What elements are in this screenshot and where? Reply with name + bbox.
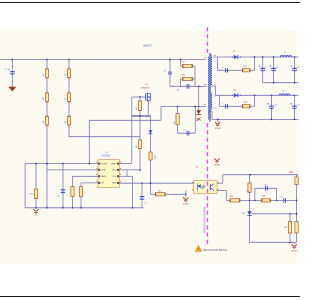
svg-text:UC3842: UC3842: [102, 156, 111, 158]
resistor R8: [183, 77, 193, 80]
svg-text:L2: L2: [282, 91, 285, 93]
svg-text:R13: R13: [158, 190, 161, 192]
svg-text:PRIMARY-SECONDARY: PRIMARY-SECONDARY: [203, 206, 206, 233]
inductor L1: [280, 56, 291, 57]
svg-text:R9: R9: [174, 121, 176, 124]
fb bottom rail: [250, 241, 297, 243]
source column x=150.5 w/ zener + sense resistor: [147, 100, 149, 116]
IC left pin wires: [25, 163, 98, 165]
TL431 anode down: [249, 216, 251, 243]
svg-text:C11: C11: [297, 105, 300, 107]
svg-text:R8: R8: [182, 74, 186, 76]
resistor R19: [230, 199, 240, 202]
resistor R16 x=81: [80, 183, 82, 208]
resistor chain R1a..R1c at x=47: [46, 60, 48, 208]
svg-text:C13: C13: [264, 185, 267, 187]
svg-text:Q1: Q1: [145, 84, 148, 86]
svg-text:C10: C10: [274, 105, 277, 107]
resistor R18: [242, 105, 250, 108]
divider column x=296.5: [296, 175, 298, 243]
ground (input, earth): [8, 87, 16, 91]
ground SGND (transformer): [217, 119, 219, 122]
cap C10: [271, 95, 273, 119]
svg-text:R17: R17: [244, 66, 247, 68]
svg-text:ISOLATION Barrier: ISOLATION Barrier: [203, 248, 228, 252]
svg-text:C7: C7: [265, 67, 267, 69]
svg-text:R4: R4: [65, 73, 67, 76]
inductor L2: [279, 94, 290, 95]
diode D5: [234, 55, 238, 59]
svg-text:R18: R18: [244, 102, 247, 104]
resistor R20: [262, 199, 271, 202]
wire: [11, 60, 13, 87]
svg-text:R10: R10: [136, 105, 138, 110]
svg-text:R6: R6: [65, 120, 67, 123]
comp cap loop C13: [254, 188, 256, 200]
svg-text:+5V: +5V: [289, 171, 294, 174]
svg-text:R22: R22: [284, 227, 287, 229]
stage1 bottom rail: [263, 82, 299, 84]
svg-text:R7: R7: [182, 61, 186, 63]
dark junction bar y=116: [132, 115, 151, 117]
svg-text:R20: R20: [262, 196, 265, 198]
IC right pin wires: [119, 163, 132, 165]
cap C6 x=142: [141, 183, 143, 208]
svg-text:U1: U1: [106, 152, 110, 154]
warning triangle: [195, 246, 202, 252]
+5V feedback rail: [223, 174, 298, 176]
transformer pin ticks: [204, 57, 205, 59]
svg-text:C6: C6: [144, 202, 146, 204]
svg-text:R5: R5: [65, 97, 67, 100]
VREF riser x=131.8: [131, 97, 133, 164]
top border line: [0, 2, 300, 3]
svg-text:VFB: VFB: [101, 170, 106, 172]
bottom border line: [0, 296, 300, 297]
svg-text:VREF: VREF: [111, 163, 117, 165]
svg-text:SGND: SGND: [214, 165, 221, 167]
stage2 output wire +5V: [216, 94, 299, 96]
wire: HV bus down-left jog: [89, 119, 161, 121]
cap C8: [273, 57, 275, 83]
resistor R15 x=72.5: [72, 176, 74, 208]
svg-text:D6: D6: [233, 90, 236, 92]
svg-text:PGND: PGND: [183, 204, 190, 206]
wire: snubber bottom: [170, 85, 206, 87]
ground SGND (fb): [293, 242, 295, 244]
svg-text:R14: R14: [30, 194, 33, 196]
svg-text:R3: R3: [43, 120, 45, 123]
snubber cap C2 leg: [169, 59, 171, 61]
resistor R13: [155, 193, 165, 196]
RC from drain: resistor R9 + cap C4: [177, 107, 179, 134]
divider resistor R22: [289, 214, 291, 243]
wire: drain bus y=106.5: [161, 106, 206, 108]
cap C9: [294, 57, 296, 83]
main fb wire y=200.4: [226, 199, 296, 201]
resistor R17: [242, 69, 250, 72]
core: [208, 53, 210, 122]
wire: snubber to drain: [198, 86, 200, 106]
capacitor C3 on snubber bottom: [186, 84, 188, 89]
stage2 bottom rail / secondary gnd: [212, 118, 298, 120]
svg-text:2N60K07: 2N60K07: [141, 88, 151, 90]
diode D4 (clamp): [198, 107, 200, 111]
left bias column x=25: [24, 164, 26, 208]
svg-text:C2: C2: [164, 71, 167, 73]
svg-text:R1: R1: [43, 73, 45, 76]
svg-text:C: C: [222, 103, 224, 105]
snubber resistor loop: [180, 60, 182, 67]
TL431 U3: [247, 211, 251, 215]
svg-text:D4: D4: [196, 120, 200, 122]
svg-text:SGND: SGND: [291, 250, 298, 252]
primary ground rail: [25, 207, 143, 209]
IC U1 UC3842 box: [98, 160, 119, 188]
opto internals: [197, 184, 199, 191]
svg-text:R11: R11: [136, 144, 138, 148]
svg-text:C9: C9: [297, 67, 299, 69]
schematic sheet: [0, 30, 300, 264]
stage1 output wire +12V: [213, 56, 299, 58]
svg-text:R2: R2: [43, 97, 45, 100]
wire to opto side / pin5 row: [150, 183, 152, 194]
svg-text:U3: U3: [242, 213, 245, 215]
opto LED lower pin jog: [217, 190, 226, 192]
resistor R12 (current sense): [149, 152, 152, 160]
wire: chain2 bottom to VCC node: [69, 136, 140, 138]
resistor R14 x=36: [35, 164, 37, 208]
ground PGND on rail: [35, 208, 37, 209]
cap C5 x=63: [62, 164, 64, 208]
svg-text:C5: C5: [57, 196, 59, 198]
resistor R7: [183, 64, 193, 67]
resistor chain R4a..R4c at x=69: [68, 60, 70, 137]
svg-text:L1: L1: [284, 52, 287, 54]
svg-text:D5: D5: [233, 51, 236, 53]
stage2 feed jog: [212, 85, 216, 87]
svg-text:VCC: VCC: [112, 170, 117, 172]
svg-text:PG: PG: [34, 215, 37, 217]
diode D6: [234, 93, 238, 97]
svg-text:2A: 2A: [177, 89, 180, 92]
svg-text:U2: U2: [196, 167, 200, 169]
svg-text:R12: R12: [154, 154, 156, 159]
MOSFET Q1: [132, 96, 146, 98]
zener D2: [149, 130, 153, 133]
wire: primary top rail: [0, 59, 206, 61]
secondary winding (right bumps): [211, 55, 212, 85]
svg-text:C12: C12: [280, 197, 283, 199]
bias resistor R21 from +5V: [249, 175, 251, 212]
opto pin ticks: [192, 181, 193, 183]
primary winding (left bumps): [208, 57, 209, 119]
cap C7: [262, 57, 264, 83]
winding return to SGND: [210, 111, 213, 113]
isolation barrier dashed line: [207, 27, 209, 53]
svg-text:ISEN: ISEN: [101, 176, 106, 178]
svg-text:C1: C1: [5, 69, 8, 71]
snubber RC stage1: [217, 57, 219, 70]
svg-text:GND: GND: [112, 183, 117, 185]
TL431 ref wire: [252, 213, 297, 215]
svg-text:C: C: [222, 67, 224, 69]
svg-text:COMP: COMP: [101, 163, 108, 165]
snubber RC stage2: [219, 95, 221, 106]
svg-text:R21: R21: [247, 191, 250, 193]
svg-text:380VDC: 380VDC: [143, 44, 152, 47]
node: input node: [11, 59, 13, 61]
opto U2 box: [194, 181, 217, 194]
cap C11: [293, 95, 295, 119]
svg-text:R19: R19: [230, 196, 233, 198]
svg-text:SGND: SGND: [215, 128, 222, 130]
gate pulldown resistor R10 / divider column x=140: [139, 97, 141, 170]
ground SGND (above opto): [214, 159, 220, 161]
ground PGND under R13 node: [185, 194, 187, 197]
svg-text:C4: C4: [183, 130, 185, 132]
capacitor C1 (input electrolytic): [10, 71, 15, 73]
cap C12: [283, 198, 285, 203]
svg-text:C8: C8: [276, 67, 278, 69]
